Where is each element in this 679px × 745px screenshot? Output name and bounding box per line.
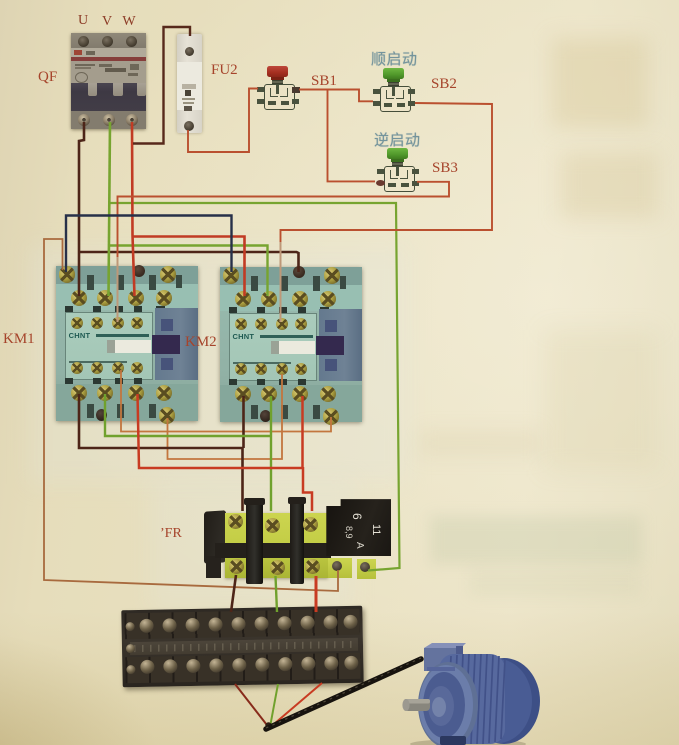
label 顺启动 [371, 48, 418, 69]
wire SB1 junction down to SB3 left [328, 90, 376, 182]
fuse FU2 [177, 34, 202, 133]
label U [76, 13, 90, 29]
circuit breaker QF [71, 33, 146, 129]
wire left control loop KM1 to FR auxiliary (orange) [44, 239, 338, 591]
wire V-phase control branch down to FR auxiliary (green) [110, 203, 400, 571]
pushbutton SB1 [250, 64, 306, 112]
motor supply cable (black) [266, 659, 421, 729]
wire W-phase QF to KM1 L3 (red) [132, 122, 135, 296]
terminal block XT [121, 606, 363, 688]
wire interlock KM1 corner to KM2 aux (orange) [168, 374, 283, 459]
label W [121, 14, 137, 30]
wire SB2 loop tail into KM2 aux terminal (tan) [280, 242, 282, 322]
wire FU2 bottom to SB1 left (orange-red) [188, 89, 258, 153]
label V [100, 14, 114, 30]
label KM1 [3, 331, 35, 348]
wire FR V output to terminal block [276, 576, 278, 612]
wire FR U output to terminal block [231, 575, 236, 612]
wire SB1 right to SB2 left [299, 90, 373, 102]
wire QF W terminal to fuse FU2 top (dark brown) [133, 27, 190, 144]
pushbutton SB2 [366, 66, 422, 114]
label 逆启动 [374, 129, 421, 150]
wire V-phase QF to KM1 L2 (green) [109, 122, 111, 296]
wire W-phase branch to KM2 L1 [133, 237, 245, 297]
wire interlock KM1 aux to KM2 bottom corner (orange) [121, 370, 331, 432]
wire FR W output to terminal block [315, 576, 318, 612]
label QF [38, 69, 57, 86]
contactor KM2 [220, 267, 362, 422]
contactor KM1 [56, 266, 198, 421]
wire terminal block to motor lead 2 (green) [270, 684, 278, 727]
wire U-phase branch to KM2 top terminal [79, 252, 299, 272]
label FR [160, 526, 182, 542]
wire KM1 T1 + KM2 T1 to FR 1 (dark maroon) [79, 394, 244, 511]
motor M [393, 641, 558, 745]
label SB1 [311, 73, 337, 90]
wire SB3 loop tail into KM1 aux terminal (tan) [117, 257, 119, 322]
wire interlock link KM1 to KM2 (navy) [66, 216, 232, 273]
wire KM1 T3 + KM2 T3 to FR 5 (red) [138, 394, 313, 511]
pushbutton SB3 [370, 146, 426, 194]
wire terminal block to motor lead 3 (red) [271, 683, 323, 727]
label KM2 [185, 334, 217, 351]
wire SB3 right loop to KM1 aux [118, 182, 450, 258]
wire V-phase branch to KM2 L2 [109, 246, 268, 297]
wire KM1 T2 + KM2 T2 to FR 3 (green) [105, 394, 271, 511]
junction node at motor cable [265, 722, 271, 728]
wire U-phase QF to KM1 L1 (dark maroon) [79, 122, 84, 296]
wire SB2 right loop down to KM2 coil [281, 103, 493, 243]
label SB2 [431, 76, 457, 93]
wire terminal block to motor lead 1 (dark red) [235, 684, 269, 727]
label FU2 [211, 62, 238, 79]
label SB3 [432, 160, 458, 177]
thermal relay FR [204, 498, 394, 584]
